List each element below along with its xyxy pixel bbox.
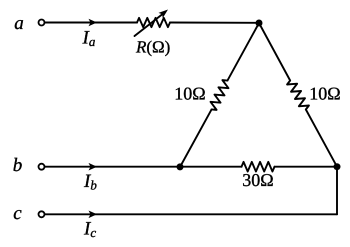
resistor 10ohm right zigzag	[287, 80, 309, 109]
current arrow Ia	[89, 19, 98, 27]
variable resistor arrow shaft	[135, 15, 163, 37]
terminal a	[39, 20, 45, 26]
svg-text:10Ω: 10Ω	[174, 84, 205, 104]
wire right vertical (c up to right node)	[336, 167, 338, 215]
wire 30ohm to right node	[275, 166, 338, 168]
wire left leg lower (10ohm left to node b)	[180, 109, 212, 167]
node right junction dot	[334, 163, 341, 170]
wire resistor R to apex node	[170, 22, 259, 24]
wire a to resistor R	[45, 22, 137, 24]
svg-text:30Ω: 30Ω	[242, 170, 273, 190]
wire right leg upper (apex to 10ohm right)	[259, 23, 290, 80]
resistor 10ohm left zigzag	[211, 80, 229, 110]
current arrow Ib	[89, 163, 98, 171]
terminal b	[39, 164, 45, 170]
variable resistor arrowhead	[159, 10, 169, 19]
svg-text:10Ω: 10Ω	[309, 84, 340, 104]
wire right leg lower (10ohm right to right node)	[306, 110, 337, 167]
svg-text:b: b	[13, 155, 23, 176]
resistor R (variable) zigzag	[137, 18, 170, 27]
resistor 30ohm zigzag	[242, 162, 275, 172]
wire b to 30ohm	[45, 166, 242, 168]
wire left leg upper (apex to 10ohm left)	[227, 23, 259, 81]
wire c horizontal	[45, 213, 337, 215]
node apex junction dot	[256, 20, 263, 27]
terminal c	[39, 211, 45, 217]
current arrow Ic	[89, 211, 98, 219]
node b-left junction dot	[177, 163, 184, 170]
svg-text:a: a	[14, 13, 24, 34]
svg-text:c: c	[13, 203, 22, 224]
svg-text:R(Ω): R(Ω)	[135, 38, 170, 57]
